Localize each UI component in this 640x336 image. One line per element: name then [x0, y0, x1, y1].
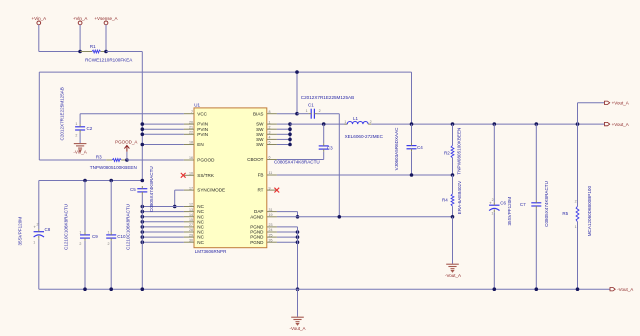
svg-text:C7: C7	[520, 202, 526, 207]
svg-text:MCA12060D6800BP100: MCA12060D6800BP100	[587, 186, 592, 237]
node Vout-C6	[493, 122, 497, 126]
node AGND-C1	[338, 215, 342, 219]
node NC	[141, 235, 145, 239]
resistor R3	[90, 154, 137, 170]
svg-text:21: 21	[189, 125, 193, 129]
node rail	[141, 287, 145, 291]
wire	[80, 113, 184, 115]
wire	[578, 102, 605, 104]
node NC	[141, 240, 145, 244]
node NC	[141, 230, 145, 234]
svg-text:6: 6	[269, 156, 271, 160]
resistor R2	[444, 124, 462, 175]
svg-text:2: 2	[37, 223, 39, 227]
svg-text:CBOOT: CBOOT	[247, 157, 264, 162]
svg-text:C9: C9	[92, 234, 98, 239]
capacitor C6	[489, 124, 512, 225]
node SW	[288, 122, 292, 126]
node PVIN	[141, 133, 145, 137]
node NC	[141, 210, 145, 214]
node Vout-C7	[535, 122, 539, 126]
svg-text:EN: EN	[197, 142, 203, 147]
wire	[277, 124, 290, 144]
node rail	[535, 287, 539, 291]
node Vout-R2	[451, 122, 455, 126]
wire	[142, 144, 184, 146]
wire	[277, 113, 297, 115]
svg-text:1: 1	[344, 120, 346, 124]
svg-text:C1210C106K8RACTU: C1210C106K8RACTU	[64, 204, 69, 250]
svg-text:+Vsense_A: +Vsense_A	[94, 16, 117, 21]
wire	[338, 114, 340, 217]
wire	[277, 236, 298, 238]
node PVIN	[141, 122, 145, 126]
port -Vout_A	[610, 287, 633, 292]
node	[141, 179, 145, 183]
wire	[296, 72, 298, 114]
svg-text:R1: R1	[90, 44, 96, 49]
wire	[110, 241, 112, 290]
wire	[39, 159, 106, 161]
wire	[142, 236, 184, 238]
svg-text:C1: C1	[308, 103, 314, 108]
wire	[277, 231, 298, 233]
node FB	[451, 173, 455, 177]
wire	[127, 159, 184, 161]
node SW	[288, 143, 292, 147]
svg-text:9: 9	[269, 186, 271, 190]
wire	[84, 181, 86, 233]
svg-text:TNPW0805100KBEEN: TNPW0805100KBEEN	[90, 165, 137, 170]
svg-text:C0805X474K8RACTU: C0805X474K8RACTU	[544, 181, 549, 227]
svg-text:20: 20	[189, 120, 193, 124]
svg-text:10: 10	[189, 172, 193, 176]
wire	[277, 241, 298, 243]
svg-text:+Vin_A: +Vin_A	[73, 16, 88, 21]
svg-text:LM73606RNPR: LM73606RNPR	[195, 249, 227, 254]
node NC	[141, 225, 145, 229]
wire	[277, 211, 298, 213]
svg-text:SW: SW	[256, 142, 264, 147]
wire	[142, 221, 184, 223]
svg-text:1: 1	[269, 120, 271, 124]
svg-text:13: 13	[189, 208, 193, 212]
svg-text:C4: C4	[417, 145, 423, 150]
svg-text:18: 18	[189, 141, 193, 145]
svg-text:28: 28	[189, 228, 193, 232]
wire	[142, 123, 184, 125]
port +Vout_A (sense)	[605, 101, 629, 106]
wire	[142, 231, 184, 233]
svg-text:RT: RT	[257, 188, 263, 193]
wire	[277, 216, 453, 218]
svg-text:ERA-6AEB402V: ERA-6AEB402V	[457, 180, 462, 214]
node PGND	[296, 230, 300, 234]
wire	[535, 209, 537, 290]
node SW	[288, 138, 292, 142]
wire	[39, 180, 143, 182]
svg-text:SS/TRK: SS/TRK	[197, 173, 215, 178]
svg-text:PGOOD_A: PGOOD_A	[115, 140, 137, 145]
node PGND	[296, 240, 300, 244]
svg-text:26: 26	[269, 238, 273, 242]
wire	[297, 289, 299, 317]
node NC	[141, 220, 145, 224]
node SW-CBOOT	[322, 122, 326, 126]
wire	[38, 25, 40, 52]
svg-text:1: 1	[75, 122, 77, 126]
inductor L1	[344, 116, 383, 139]
svg-text:VJ0603A5R6DXAAC: VJ0603A5R6DXAAC	[394, 127, 399, 171]
capacitor C10	[106, 204, 130, 250]
svg-text:-Vout_A: -Vout_A	[289, 326, 305, 331]
node rail	[493, 287, 497, 291]
capacitor C5	[130, 166, 154, 212]
wire	[141, 52, 143, 181]
wire	[38, 181, 40, 230]
svg-text:35SVPF120M: 35SVPF120M	[18, 217, 23, 246]
svg-text:27: 27	[189, 223, 193, 227]
wire	[105, 25, 107, 52]
svg-text:15: 15	[189, 218, 193, 222]
svg-text:TNPW0805100KBEEN: TNPW0805100KBEEN	[457, 128, 462, 175]
svg-text:BIAS: BIAS	[253, 111, 263, 116]
svg-text:1: 1	[79, 230, 81, 234]
node rail	[576, 287, 580, 291]
wire	[142, 133, 184, 135]
wire	[79, 114, 81, 125]
capacitor C4	[394, 124, 423, 175]
svg-text:L1: L1	[353, 116, 359, 121]
svg-text:C0805X474K8RACTU: C0805X474K8RACTU	[149, 166, 154, 212]
node	[83, 179, 87, 183]
wire	[577, 103, 579, 124]
node SYNC	[173, 205, 177, 209]
wire	[277, 174, 453, 176]
wire	[39, 51, 80, 53]
capacitor C1	[297, 95, 354, 119]
svg-text:22: 22	[189, 131, 193, 135]
node NC	[141, 215, 145, 219]
node NC	[141, 205, 145, 209]
wire	[297, 212, 299, 217]
ground -Vout_A (AGND)	[445, 264, 461, 278]
ground -Vin_A	[73, 144, 86, 155]
node PGND-rail	[296, 287, 300, 291]
svg-text:C0805X474K8RACTU: C0805X474K8RACTU	[274, 160, 320, 165]
node	[109, 179, 113, 183]
node rail	[83, 287, 87, 291]
svg-text:24: 24	[269, 228, 273, 232]
node AGND-R4	[451, 215, 455, 219]
power port +Vin_A (1)	[32, 16, 47, 25]
svg-text:1: 1	[575, 225, 577, 229]
wire	[84, 241, 86, 290]
node SW	[288, 133, 292, 137]
capacitor C2	[60, 87, 93, 140]
svg-text:-Vout_A: -Vout_A	[445, 273, 461, 278]
port +Vout_A	[605, 122, 629, 127]
svg-text:16: 16	[189, 156, 193, 160]
node BIAS2	[295, 112, 299, 116]
svg-text:XEL6060-272MEC: XEL6060-272MEC	[345, 134, 384, 139]
wire	[38, 72, 40, 160]
capacitor C7	[520, 124, 549, 227]
wire	[39, 288, 610, 290]
svg-text:NC: NC	[197, 240, 204, 245]
wire	[277, 159, 324, 161]
svg-text:FB: FB	[258, 173, 264, 178]
node FB-C4	[410, 173, 414, 177]
node PVIN	[141, 127, 145, 131]
svg-text:2: 2	[492, 198, 494, 202]
resistor R4	[442, 175, 462, 217]
node AGND	[296, 215, 300, 219]
svg-text:3: 3	[269, 131, 271, 135]
wire	[175, 189, 184, 191]
svg-text:C2012X7R1E225M125AB: C2012X7R1E225M125AB	[301, 95, 354, 100]
node rail	[109, 287, 113, 291]
svg-text:C3: C3	[327, 145, 333, 150]
wire	[411, 72, 413, 124]
wire	[277, 226, 298, 228]
wire	[142, 241, 184, 243]
svg-text:C8: C8	[45, 227, 51, 232]
svg-text:U1: U1	[194, 102, 200, 107]
svg-text:30: 30	[189, 238, 193, 242]
power port +Vin_A (2)	[73, 16, 88, 25]
wire	[493, 212, 495, 289]
wire	[110, 181, 112, 233]
svg-text:+Vout_A: +Vout_A	[612, 101, 629, 106]
ground -Vout_A (PGND)	[289, 317, 305, 331]
svg-text:25: 25	[269, 233, 273, 237]
svg-text:5: 5	[269, 141, 271, 145]
svg-text:2: 2	[370, 120, 372, 124]
op-amp U1 (regulator LM73606RNPR)	[184, 102, 277, 254]
svg-text:PVIN: PVIN	[197, 132, 208, 137]
svg-text:17: 17	[189, 186, 193, 190]
wire	[38, 239, 40, 289]
svg-text:R2: R2	[444, 151, 450, 156]
capacitor C9	[64, 204, 99, 250]
svg-text:2: 2	[575, 200, 577, 204]
svg-text:1: 1	[306, 109, 308, 113]
svg-text:23: 23	[269, 223, 273, 227]
svg-text:SYNC/MODE: SYNC/MODE	[197, 188, 225, 193]
wire	[174, 190, 176, 206]
power flag PGOOD_A	[115, 140, 137, 160]
wire	[371, 123, 604, 125]
wire	[297, 227, 299, 289]
svg-text:11: 11	[269, 171, 273, 175]
svg-text:8: 8	[269, 110, 271, 114]
capacitor C8	[18, 217, 51, 246]
svg-text:1: 1	[33, 240, 35, 244]
wire	[39, 71, 411, 73]
node Vsense	[104, 50, 108, 54]
wire	[79, 25, 81, 52]
svg-text:AGND: AGND	[250, 214, 264, 219]
no-connect SS/TRK	[181, 173, 186, 178]
wire	[106, 51, 142, 53]
wire	[290, 123, 347, 125]
svg-text:2: 2	[75, 134, 77, 138]
svg-text:VCC: VCC	[197, 111, 207, 116]
wire	[142, 206, 184, 208]
svg-text:2: 2	[269, 125, 271, 129]
svg-text:+Vout_A: +Vout_A	[612, 122, 629, 127]
resistor R5	[562, 124, 591, 289]
svg-text:1: 1	[491, 211, 493, 215]
svg-text:+Vin_A: +Vin_A	[32, 16, 47, 21]
svg-text:2: 2	[79, 242, 81, 246]
svg-text:19: 19	[269, 213, 273, 217]
svg-text:PGND: PGND	[250, 240, 264, 245]
svg-text:-Vin_A: -Vin_A	[73, 150, 86, 155]
svg-text:PGOOD: PGOOD	[197, 158, 215, 163]
svg-text:31: 31	[269, 208, 273, 212]
wire	[79, 133, 81, 144]
power port +Vsense_A	[94, 16, 117, 25]
svg-text:4: 4	[269, 136, 271, 140]
svg-text:R4: R4	[442, 198, 448, 203]
node Vin	[78, 50, 82, 54]
svg-text:R5: R5	[562, 211, 568, 216]
svg-text:C6: C6	[500, 201, 506, 206]
svg-text:29: 29	[189, 233, 193, 237]
wire	[142, 226, 184, 228]
svg-text:R3: R3	[96, 154, 102, 159]
node Vout-R5	[576, 122, 580, 126]
svg-text:C2012X7R1E225M125AB: C2012X7R1E225M125AB	[60, 87, 65, 140]
svg-text:14: 14	[189, 213, 193, 217]
node BIAS	[295, 70, 299, 74]
svg-text:RCWE1210R100FKEA: RCWE1210R100FKEA	[85, 58, 133, 63]
capacitor C3	[319, 124, 333, 159]
svg-text:35SVPF120M: 35SVPF120M	[507, 197, 512, 226]
svg-text:-Vout_A: -Vout_A	[617, 287, 633, 292]
svg-text:C5: C5	[130, 187, 136, 192]
node EN	[141, 143, 145, 147]
svg-text:1: 1	[108, 230, 110, 234]
wire	[142, 211, 184, 213]
wire	[452, 217, 454, 264]
node PGND	[296, 235, 300, 239]
no-connect RT	[274, 188, 279, 193]
svg-text:2: 2	[108, 242, 110, 246]
node SW	[288, 127, 292, 131]
resistor R1	[80, 44, 133, 62]
wire	[141, 195, 143, 290]
svg-text:7: 7	[191, 110, 193, 114]
wire	[142, 216, 184, 218]
svg-text:12: 12	[189, 203, 193, 207]
node Vout-C4	[410, 122, 414, 126]
svg-text:2: 2	[319, 109, 321, 113]
node PGOOD	[125, 158, 129, 162]
svg-text:C1210C106K8RACTU: C1210C106K8RACTU	[125, 204, 130, 250]
wire	[142, 128, 184, 130]
svg-text:C2: C2	[87, 126, 93, 131]
